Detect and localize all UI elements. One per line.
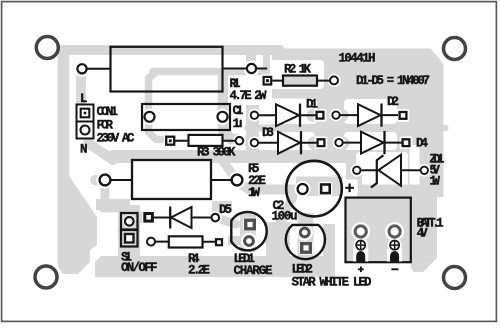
wire C2 left pad to LED area: [280, 197, 293, 222]
svg-text:D3: D3: [262, 126, 274, 140]
svg-text:D5: D5: [219, 203, 232, 217]
cutout around D2: [344, 99, 397, 124]
wire R4 pad to LED1: [228, 236, 244, 245]
LED2: [286, 225, 325, 259]
svg-text:D1: D1: [306, 97, 318, 111]
wire band above R5: [113, 150, 346, 163]
svg-text:2.2E: 2.2E: [188, 264, 210, 278]
battery connector BATT.1: [346, 198, 411, 273]
wire bridge mid top: [313, 109, 342, 122]
wire D5 to LED1: [214, 217, 236, 224]
wire top bus: [62, 45, 280, 55]
zener ZD1: [353, 155, 428, 188]
svg-text:1W: 1W: [248, 186, 260, 200]
LED1: [231, 212, 266, 250]
resistor R3: [166, 135, 243, 146]
mounting hole top-right: [444, 38, 466, 60]
wire C1 left node: [149, 72, 167, 140]
mounting hole bottom-left: [35, 266, 57, 288]
diode D4: [335, 131, 409, 154]
svg-text:R3 390K: R3 390K: [197, 146, 236, 160]
svg-text:100u: 100u: [272, 210, 298, 224]
copper pour right of battery: [411, 196, 437, 272]
svg-text:1W: 1W: [429, 174, 440, 188]
svg-text:D1-D5 = 1N4007: D1-D5 = 1N4007: [356, 74, 430, 88]
cutout around D3: [258, 132, 315, 150]
diode D1: [251, 104, 324, 127]
diode D3: [251, 131, 325, 154]
svg-text:ON/OFF: ON/OFF: [121, 261, 158, 275]
wire R5 left pad down to S1: [103, 185, 122, 208]
capacitor C1: [142, 104, 230, 130]
wire R2 right pad down: [327, 80, 337, 112]
resistor R1: [77, 47, 267, 92]
svg-text:N: N: [80, 143, 88, 157]
wire CON1 N to R5 band diagonal: [88, 143, 113, 160]
wire R5 to C2 to battery: [237, 181, 420, 190]
copper pour top right: [272, 49, 444, 198]
wire C2 to LED2 pads strip: [298, 213, 314, 260]
mounting hole bottom-right: [444, 267, 466, 289]
resistor R2: [264, 76, 338, 86]
wire ZD1 right pad down: [420, 170, 430, 196]
cutout around R2: [270, 60, 324, 89]
diode D2: [332, 104, 406, 127]
cutout channel right of D4: [410, 145, 420, 190]
wire LED1 pads strip: [240, 213, 256, 252]
mounting hole top-left: [36, 37, 58, 59]
capacitor C2: [286, 161, 354, 217]
wire R1 to R2 band: [153, 68, 272, 76]
svg-text:L: L: [80, 92, 88, 106]
white cutouts in pour: [258, 60, 420, 190]
wire R3 right to D3: [241, 137, 252, 146]
cutout around ZD1: [356, 152, 408, 189]
connector CON1: [77, 105, 94, 139]
svg-text:D4: D4: [416, 137, 428, 151]
wire between diode rows: [248, 125, 445, 132]
svg-text:CON1: CON1: [97, 105, 119, 119]
wire C2 pads block: [296, 177, 343, 197]
svg-text:1u: 1u: [233, 117, 243, 131]
svg-text:C1: C1: [233, 104, 244, 118]
svg-text:4V: 4V: [417, 227, 428, 241]
cutout around D1: [258, 99, 317, 125]
wire R1 left pad to CON1 L: [76, 72, 86, 103]
svg-text:STAR WHITE LED: STAR WHITE LED: [292, 276, 372, 290]
svg-text:D2: D2: [387, 95, 399, 109]
wire C1 right node to R3: [223, 73, 237, 139]
wire right of LED2: [323, 224, 335, 278]
wire S1 strip: [118, 205, 140, 257]
svg-text:CHARGE: CHARGE: [234, 264, 273, 278]
wire R1 right pad stub: [246, 52, 256, 64]
wire band to R5 right pad: [222, 160, 236, 179]
wire D1 D3 left node: [246, 105, 259, 150]
diode D5: [145, 207, 219, 229]
svg-text:10441H: 10441H: [339, 52, 376, 66]
resistor R5: [100, 160, 243, 199]
wire ZD1 left pad down: [352, 170, 362, 194]
svg-text:R2 1K: R2 1K: [284, 63, 311, 77]
wire bottom band: [95, 256, 327, 277]
resistor R4: [147, 236, 222, 247]
wire left bus + pour A: [58, 50, 97, 274]
cutout around D4: [344, 132, 397, 150]
svg-text:4.7E 2W: 4.7E 2W: [230, 89, 267, 103]
svg-text:LED2: LED2: [292, 263, 314, 277]
wire S1 to D5 pad: [136, 212, 152, 223]
wire D5 right pad area: [212, 201, 232, 212]
wire R5 left pad to pour: [95, 175, 105, 185]
svg-text:230V AC: 230V AC: [97, 132, 135, 146]
switch S1: [121, 213, 138, 247]
svg-text:FOR: FOR: [97, 119, 114, 133]
wire between LED1 LED2: [266, 222, 290, 262]
pad halos: [74, 61, 431, 255]
wire bridge mid bottom: [314, 137, 343, 150]
wire R2 left pad up: [263, 52, 270, 79]
